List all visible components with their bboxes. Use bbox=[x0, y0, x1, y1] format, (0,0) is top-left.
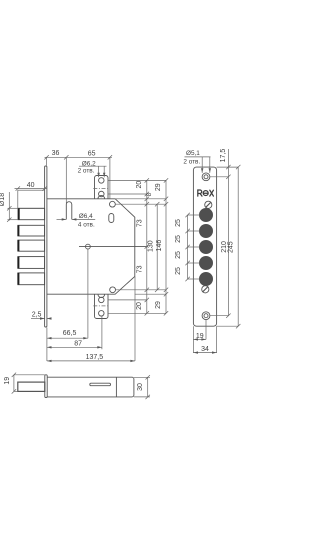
right view dimension lines bbox=[185, 149, 241, 354]
svg-text:146: 146 bbox=[156, 240, 163, 252]
dim 40 bbox=[15, 188, 48, 190]
svg-text:Ø5,1: Ø5,1 bbox=[186, 150, 200, 157]
svg-text:2 отв.: 2 отв. bbox=[183, 158, 200, 165]
slotted screw bottom bbox=[202, 286, 209, 293]
top tab hole 1 (Oe6,2) bbox=[99, 178, 105, 184]
svg-text:29: 29 bbox=[155, 183, 162, 191]
svg-text:Ø18: Ø18 bbox=[0, 193, 6, 206]
latch bolt (top, thin) bbox=[18, 190, 45, 208]
dim 2,5 faceplate thickness bbox=[31, 318, 45, 320]
bottom mounting tab bbox=[95, 294, 109, 318]
svg-text:25: 25 bbox=[175, 251, 182, 259]
dimension lines main view bbox=[7, 155, 168, 362]
svg-text:73: 73 bbox=[137, 219, 144, 227]
svg-text:8: 8 bbox=[146, 192, 153, 196]
bottom tab hole 2 bbox=[99, 311, 105, 317]
REX logo bbox=[198, 190, 214, 196]
slot in case side bbox=[90, 383, 111, 386]
dim column 146 / 29 / 29 bbox=[165, 180, 167, 313]
dim 25 column bbox=[187, 215, 189, 279]
deadbolt 4 bbox=[18, 273, 45, 285]
Oe18 bolt extension lines bbox=[8, 208, 19, 219]
dim column 130 bbox=[156, 204, 158, 290]
label Oe6,4 4 otv + slot width dim bbox=[57, 218, 67, 220]
side view of lock (bottom of sheet) bbox=[18, 375, 134, 398]
round bolt Oe18 bbox=[18, 208, 44, 219]
svg-text:29: 29 bbox=[155, 301, 162, 309]
top mounting tab bbox=[95, 176, 109, 199]
dim 36 / 65 top bbox=[45, 156, 113, 158]
svg-text:2,5: 2,5 bbox=[32, 312, 42, 319]
bolt, side view bbox=[18, 382, 45, 391]
svg-text:66,5: 66,5 bbox=[63, 330, 77, 337]
svg-text:87: 87 bbox=[74, 340, 82, 347]
svg-text:20: 20 bbox=[136, 302, 143, 310]
svg-text:4 отв.: 4 отв. bbox=[78, 221, 95, 228]
right view: faceplate with bolt holes bbox=[193, 167, 216, 326]
main view: lock case, front bbox=[45, 166, 147, 327]
body hole bottom-right (Oe6,4) bbox=[110, 287, 116, 293]
svg-text:Ø6,2: Ø6,2 bbox=[82, 160, 96, 167]
dim Oe18 bbox=[8, 192, 10, 221]
svg-text:Ø6,4: Ø6,4 bbox=[79, 213, 93, 220]
dim 34 bottom bbox=[193, 352, 216, 354]
svg-text:137,5: 137,5 bbox=[86, 354, 104, 361]
svg-text:25: 25 bbox=[175, 235, 182, 243]
svg-text:40: 40 bbox=[27, 182, 35, 189]
dim 17,5 / 210 column bbox=[227, 149, 229, 316]
screw hole top (Oe5,1) bbox=[202, 173, 210, 181]
lock body outline bbox=[47, 199, 135, 294]
deadbolt 1 bbox=[18, 225, 45, 236]
bottom dims 66,5 / 87 / 137,5 bbox=[46, 328, 48, 362]
svg-text:17,5: 17,5 bbox=[220, 149, 227, 163]
centre line with hub circle bbox=[79, 246, 147, 248]
faceplate (front strip), main view bbox=[45, 166, 47, 327]
svg-text:2 отв.: 2 отв. bbox=[78, 168, 95, 175]
svg-text:36: 36 bbox=[52, 150, 60, 157]
faceplate edge, side view bbox=[45, 375, 47, 398]
slot near faceplate (Oe6,4) bbox=[66, 202, 72, 220]
svg-text:65: 65 bbox=[88, 151, 96, 158]
slotted screw top bbox=[205, 201, 212, 208]
deadbolt 2 bbox=[18, 240, 45, 251]
svg-text:25: 25 bbox=[175, 219, 182, 227]
deadbolt 3 bbox=[18, 257, 45, 269]
right-side feature extension lines bbox=[108, 179, 166, 181]
side view dims bbox=[12, 373, 150, 400]
dim column 20/8/73/73/20 bbox=[146, 180, 148, 313]
dim 19 bottom bbox=[192, 326, 194, 353]
bolt thick front edges bbox=[17, 208, 19, 284]
svg-text:73: 73 bbox=[137, 265, 144, 273]
arc hole on body top edge bbox=[98, 195, 105, 198]
svg-text:130: 130 bbox=[148, 240, 155, 252]
internal joint line bbox=[115, 377, 117, 397]
svg-text:20: 20 bbox=[136, 181, 143, 189]
five bolt holes (dark) bbox=[199, 208, 213, 286]
vertical slot right of centre bbox=[109, 214, 114, 223]
label Oe5,1 2 otv bbox=[185, 156, 211, 158]
arc hole on body bottom edge bbox=[98, 294, 105, 297]
svg-text:25: 25 bbox=[175, 267, 182, 275]
svg-text:245: 245 bbox=[227, 241, 234, 253]
top tab hole 2 (Oe6,2) bbox=[99, 191, 105, 197]
faceplate plate bbox=[193, 167, 216, 326]
label Oe6,2 2 otv leader bbox=[79, 165, 107, 167]
dashed centrelines of tabs bbox=[93, 189, 109, 306]
svg-text:30: 30 bbox=[137, 383, 144, 391]
svg-text:34: 34 bbox=[201, 346, 209, 353]
bottom tab hole 1 bbox=[99, 297, 105, 303]
screw hole bottom (Oe5,1) bbox=[202, 312, 210, 320]
dim 245 column bbox=[237, 167, 239, 326]
svg-text:19: 19 bbox=[4, 377, 11, 385]
svg-text:19: 19 bbox=[196, 333, 204, 340]
body hole top-right (Oe6,4) bbox=[110, 201, 116, 207]
case, side view bbox=[47, 377, 134, 397]
